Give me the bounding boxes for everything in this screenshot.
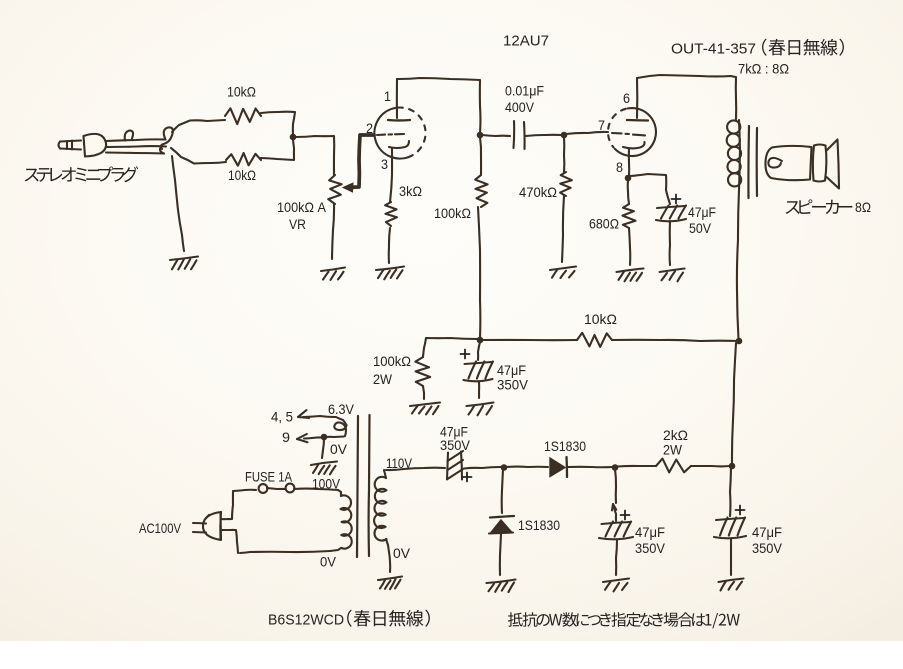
ground shunt diode <box>487 580 516 593</box>
ground 470k <box>550 267 576 279</box>
svg-text:0V: 0V <box>330 441 348 457</box>
potentiometer VR 100k <box>328 175 341 204</box>
capacitor 47uF 350V second <box>714 518 746 539</box>
label 12AU7 <box>503 33 549 50</box>
svg-text:9: 9 <box>282 429 290 445</box>
svg-text:47μF: 47μF <box>752 524 782 540</box>
wire 10k lower to node A <box>261 139 294 160</box>
ground heater <box>311 462 337 475</box>
tube U1a plate <box>388 79 410 120</box>
polarity arrow cap1 <box>612 504 616 510</box>
pin label 7 <box>598 117 605 133</box>
label 9 <box>282 429 290 445</box>
svg-text:12AU7: 12AU7 <box>503 33 549 50</box>
label 4 5 <box>271 409 293 425</box>
wire primary bottom <box>240 551 330 553</box>
svg-text:VR: VR <box>289 216 306 232</box>
capacitor 47uF 350V first <box>599 522 633 540</box>
wire node A to VR <box>296 136 334 175</box>
svg-text:3kΩ: 3kΩ <box>399 183 422 199</box>
node B+ right <box>736 338 743 345</box>
ground bypass cap <box>660 269 685 282</box>
resistor 10k upper <box>225 108 261 124</box>
ground 3k <box>376 267 404 280</box>
wire VR to ground <box>332 204 334 259</box>
tube U1a envelope solid arc <box>374 108 411 159</box>
wire shunt diode to ground <box>500 534 501 575</box>
plus bypass cap <box>672 195 681 204</box>
wire plug to ground <box>172 156 184 251</box>
label VR <box>289 216 306 232</box>
wire secondary to ground <box>389 552 390 572</box>
resistor 2k <box>656 459 691 473</box>
ground 680 <box>617 269 644 282</box>
tube U1a grid dashes <box>377 134 404 135</box>
resistor 10k rail <box>577 333 612 347</box>
VR wiper arrow wire <box>343 135 374 192</box>
label 100k plate <box>434 205 471 221</box>
node C junction <box>501 464 508 471</box>
speaker <box>765 140 839 189</box>
svg-text:50V: 50V <box>689 220 712 236</box>
diode 1S1830 series <box>550 457 567 477</box>
label 47uF 350V second <box>752 524 783 556</box>
label stereo plug <box>25 166 139 182</box>
label 10k rail <box>584 311 617 327</box>
label OUT maker <box>762 39 844 56</box>
node E junction <box>729 463 736 470</box>
svg-text:6.3V: 6.3V <box>328 401 355 417</box>
capacitor 47uF 350V third <box>464 362 493 382</box>
label 100V <box>312 476 341 492</box>
tube U1b envelope solid arc <box>615 108 656 156</box>
wire U1a plate to top rail <box>397 78 480 133</box>
wire coupling cap to node B <box>526 135 562 136</box>
ground VR <box>321 268 345 280</box>
svg-text:350V: 350V <box>635 540 666 556</box>
wire 100k to B+ rail <box>478 207 480 338</box>
svg-text:10kΩ: 10kΩ <box>228 167 256 183</box>
label 10k upper <box>227 84 256 100</box>
node B+ left <box>477 337 484 344</box>
ground input <box>170 257 198 270</box>
wire node to 680 <box>628 180 629 204</box>
svg-text:2W: 2W <box>373 371 393 387</box>
label 100k A <box>277 199 327 215</box>
wire cap1 to ground <box>616 540 617 575</box>
wire input cap to node C <box>464 467 502 469</box>
svg-text:470kΩ: 470kΩ <box>519 184 557 200</box>
wire 10k upper to node A <box>261 112 295 135</box>
svg-text:OUT-41-357: OUT-41-357 <box>671 41 756 58</box>
fuse <box>233 484 338 493</box>
svg-text:680Ω: 680Ω <box>589 216 619 232</box>
svg-text:100kΩ A: 100kΩ A <box>277 199 327 215</box>
label OUT-41-357 <box>671 41 756 58</box>
wire cathode U1a to 3k <box>390 148 392 202</box>
AC plug <box>193 512 221 540</box>
plus input cap <box>463 473 472 482</box>
ground cap1 <box>603 579 629 592</box>
label speaker 8ohm <box>855 199 871 215</box>
stereo mini plug <box>59 127 173 156</box>
wire node B to grid U1b <box>566 132 608 134</box>
svg-text:0V: 0V <box>320 554 337 570</box>
tube U1b plate <box>627 78 648 121</box>
svg-text:1: 1 <box>384 88 391 104</box>
PT primary coil <box>330 490 352 551</box>
tube U1b cathode <box>623 142 645 148</box>
PT core <box>357 415 370 557</box>
label 47uF 350V first <box>635 524 666 556</box>
wire node B to 470k <box>563 137 565 172</box>
pin label 6 <box>623 90 630 106</box>
svg-text:1S1830: 1S1830 <box>544 438 586 454</box>
PT secondary coil <box>374 470 389 552</box>
PT heater winding <box>303 416 347 437</box>
wire CT to ground <box>322 439 324 458</box>
capacitor 47uF 350V input <box>447 451 463 480</box>
node cathode junction <box>625 175 632 182</box>
wire 3k to ground <box>389 228 390 263</box>
OPT core <box>748 126 757 198</box>
label 100k 2W <box>373 353 411 387</box>
label 10k lower <box>228 167 256 183</box>
svg-text:2: 2 <box>366 120 373 136</box>
svg-text:350V: 350V <box>752 540 783 556</box>
svg-text:4, 5: 4, 5 <box>271 409 293 425</box>
B+ rail <box>480 340 739 341</box>
capacitor 47uF 50V <box>656 206 686 222</box>
svg-text:7kΩ : 8Ω: 7kΩ : 8Ω <box>738 61 789 77</box>
tube U1a envelope dashed arc <box>398 108 426 157</box>
wire node to coupling cap <box>482 135 510 136</box>
ground secondary <box>378 577 402 590</box>
wire U1b plate to OPT <box>637 75 736 119</box>
label 1S1830 shunt <box>518 517 560 533</box>
wire cap3 to ground <box>478 382 480 398</box>
wire diode to node D <box>568 466 613 469</box>
label FUSE 1A <box>245 469 293 485</box>
pin label 3 <box>381 156 388 172</box>
svg-text:B6S12WCD: B6S12WCD <box>268 612 344 629</box>
node D junction <box>612 464 619 471</box>
wire 2k to node E <box>691 465 730 467</box>
svg-text:7: 7 <box>598 117 605 133</box>
label 6.3V <box>328 401 355 417</box>
wire cathode U1b down <box>628 149 630 176</box>
label 400V <box>505 99 535 115</box>
wire B+ left arm <box>423 338 478 357</box>
plus filter cap3 <box>461 350 470 359</box>
wire plug to upper 10k <box>172 120 225 132</box>
node A junction <box>290 134 297 141</box>
svg-text:47μF: 47μF <box>635 524 665 540</box>
label PT maker <box>347 610 430 627</box>
label 680 <box>589 216 619 232</box>
wire 110V rail <box>386 468 445 470</box>
svg-text:400V: 400V <box>505 99 535 115</box>
wire CT to arrow 9 <box>304 437 322 438</box>
node plate1 junction <box>477 132 484 139</box>
label AC100V <box>139 520 182 536</box>
tube U1a cathode <box>389 141 409 148</box>
wire node C down <box>502 469 503 513</box>
label 47uF 50V <box>688 204 716 236</box>
resistor 10k lower <box>226 153 261 166</box>
svg-text:0V: 0V <box>393 545 411 561</box>
svg-text:6: 6 <box>623 90 630 106</box>
label 110V <box>386 455 413 471</box>
label B6S12WCD <box>268 612 344 629</box>
diode 1S1830 shunt <box>489 516 514 534</box>
wire node E down <box>730 468 731 516</box>
pin label 1 <box>384 88 391 104</box>
heater arrow 9 <box>297 434 308 442</box>
wire cap2 to ground <box>730 539 732 575</box>
plus cap2 <box>736 506 745 515</box>
resistor 100k 2W <box>415 357 430 386</box>
wire OPT primary to B+ rail <box>737 190 739 339</box>
svg-text:1S1830: 1S1830 <box>518 517 560 533</box>
ground cap2 <box>719 579 744 591</box>
tube U1b envelope dashed arc <box>608 109 626 148</box>
wire into cap1 <box>614 507 616 521</box>
svg-text:350V: 350V <box>497 377 529 393</box>
resistor 3k <box>385 202 397 226</box>
svg-text:100kΩ: 100kΩ <box>434 205 471 221</box>
resistor 680 <box>623 204 636 228</box>
wire 100k2W to ground <box>423 386 424 399</box>
capacitor 0.01uF <box>514 121 525 149</box>
tube U1b grid dashes <box>612 133 645 135</box>
svg-text:2W: 2W <box>663 442 683 458</box>
wire node C to diode <box>506 466 548 468</box>
node heater CT <box>321 434 328 441</box>
svg-text:FUSE 1A: FUSE 1A <box>245 469 293 485</box>
resistor 470k <box>560 172 572 196</box>
label 1S1830 series <box>544 438 586 454</box>
wire node to bypass cap <box>630 174 670 204</box>
label 2k 2W <box>663 427 688 458</box>
label 0V primary <box>320 554 337 570</box>
ground 100k2W <box>410 403 440 415</box>
wire B+ to filter cap3 <box>478 342 480 360</box>
wire node D to 2k <box>617 465 656 468</box>
svg-text:100V: 100V <box>312 476 341 492</box>
svg-text:47μF: 47μF <box>688 204 716 220</box>
OPT primary coil <box>727 120 742 189</box>
wire node D down <box>615 469 616 503</box>
label speaker <box>786 199 853 214</box>
label 0V heater <box>330 441 348 457</box>
svg-text:10kΩ: 10kΩ <box>584 311 617 327</box>
svg-text:100kΩ: 100kΩ <box>373 353 411 369</box>
svg-text:8Ω: 8Ω <box>855 199 871 215</box>
heater arrow 4 5 <box>298 410 309 418</box>
resistor 100k plate <box>475 175 487 207</box>
wire 470k to ground <box>562 196 564 262</box>
pin label 8 <box>616 159 623 175</box>
svg-text:10kΩ: 10kΩ <box>227 84 256 100</box>
wire 680 to ground <box>629 228 630 265</box>
label 47uF 350V input <box>440 424 471 454</box>
wire node E up to B+ <box>732 343 736 464</box>
label note <box>508 612 740 628</box>
wire plug to lower 10k <box>171 148 226 164</box>
label 7k:8ohm <box>738 61 789 77</box>
wire bypass cap to ground <box>669 221 672 265</box>
label 470k <box>519 184 557 200</box>
label 0V secondary <box>393 545 411 561</box>
node B junction <box>561 132 568 139</box>
pin label 2 <box>366 120 373 136</box>
label 3k <box>399 183 422 199</box>
svg-text:AC100V: AC100V <box>139 520 182 536</box>
label 0.01uF <box>505 83 544 99</box>
svg-text:8: 8 <box>616 159 623 175</box>
svg-text:3: 3 <box>381 156 388 172</box>
svg-text:0.01μF: 0.01μF <box>505 83 544 99</box>
svg-text:350V: 350V <box>440 437 471 453</box>
ground cap3 <box>467 403 494 416</box>
wire plug to loop <box>221 492 238 553</box>
plus cap1 <box>621 511 630 520</box>
label 47uF 350V third <box>497 362 529 393</box>
wire node to 100k <box>480 137 481 175</box>
